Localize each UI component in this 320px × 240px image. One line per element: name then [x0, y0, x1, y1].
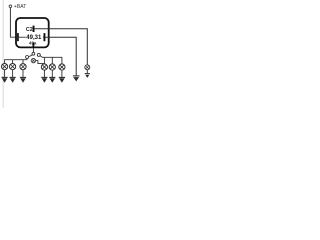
switch S1 pivot	[32, 52, 35, 55]
lamp L6	[59, 64, 65, 70]
ground pilot	[85, 73, 90, 75]
wire C2 to pilot lamp	[34, 29, 87, 65]
pin C2	[33, 26, 35, 32]
ground L1	[2, 76, 8, 78]
ground L3	[20, 76, 26, 78]
wire +BAT to relay pin 49	[10, 8, 16, 38]
wire left bus	[5, 59, 28, 64]
terminal +BAT	[9, 5, 12, 8]
wire lamp L3 to ground	[22, 70, 24, 77]
ground L5	[49, 76, 55, 78]
label 49a	[29, 40, 37, 45]
svg-text:+BAT: +BAT	[14, 4, 27, 10]
lamp L5	[49, 64, 55, 70]
wire lamp L2 to ground	[12, 70, 14, 77]
indicator lamp in switch	[31, 58, 35, 62]
wire lamp L6 to ground	[61, 70, 63, 77]
switch S1 lever	[29, 55, 32, 57]
wire lamp L5 to ground	[51, 70, 53, 77]
ground L4	[41, 76, 47, 78]
wire indicator to right bus	[36, 61, 45, 64]
ground L2	[10, 76, 16, 78]
label C2	[26, 27, 33, 33]
svg-text:C2: C2	[26, 27, 33, 33]
lamp L1	[2, 64, 8, 70]
switch S1 left contact	[26, 56, 29, 59]
label 49,31	[26, 35, 42, 41]
wire 31 to ground	[45, 37, 76, 75]
pilot lamp C2	[85, 65, 90, 70]
lamp L4	[41, 64, 47, 70]
switch S1 right contact	[37, 53, 40, 56]
ground 31	[73, 75, 80, 77]
wire right bus	[40, 56, 62, 64]
lamp L3	[20, 64, 26, 70]
wire 49 to 31 internal	[18, 36, 44, 38]
wire 49a to switch	[32, 48, 34, 52]
ground L6	[59, 76, 65, 78]
relay box U1	[16, 18, 49, 47]
label +BAT	[14, 4, 27, 10]
pin 49	[17, 33, 19, 41]
lamp L2	[10, 64, 16, 70]
pin 31	[44, 33, 46, 41]
wire lamp L1 to ground	[4, 70, 6, 77]
pin 49a	[33, 42, 35, 47]
wire pilot lamp to ground	[86, 70, 88, 73]
wire lamp L4 to ground	[43, 70, 45, 77]
